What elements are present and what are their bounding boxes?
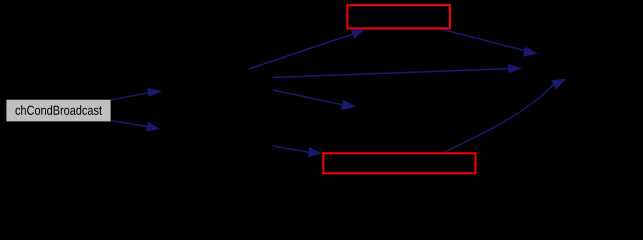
node top red box (truncated): [347, 5, 450, 28]
edge E5: upper middle node -> centre invisible node: [273, 90, 356, 110]
node chCondBroadcast (current, grey): [6, 100, 110, 122]
edge E6: lower middle node -> bottom red box: [273, 146, 322, 157]
edge E4: upper middle node -> right node: [273, 64, 523, 78]
edge E8: bottom red box -> right node (curved): [444, 79, 567, 153]
edge E2: chCondBroadcast -> lower middle node: [111, 121, 160, 132]
edge E3: upper middle node -> top red box: [249, 29, 365, 69]
call graph canvas: [0, 0, 643, 181]
edge E7: top red box -> right node: [442, 29, 538, 56]
edge E1: chCondBroadcast -> upper middle node: [111, 88, 162, 100]
node bottom red box (truncated): [323, 153, 475, 173]
